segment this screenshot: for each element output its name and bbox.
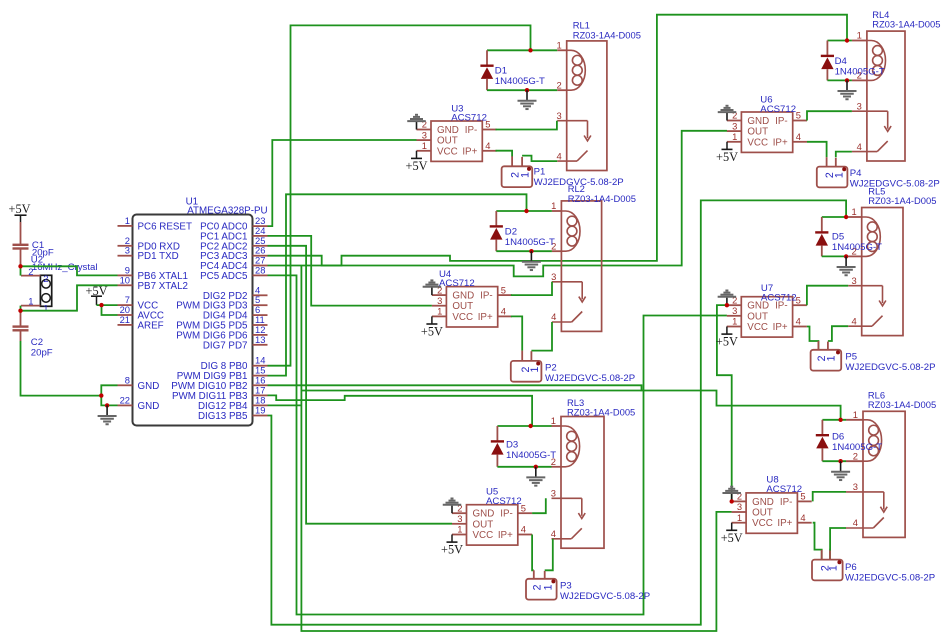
wire RL1 pin3 to U3 IP- [496,121,557,130]
wire PC4 to U6 OUT [268,131,728,277]
svg-text:DIG7 PD7: DIG7 PD7 [203,340,248,351]
svg-text:VCC: VCC [747,137,768,148]
wire RL1 coil net [487,49,557,51]
svg-text:4: 4 [796,316,801,327]
wire RL5 pin2 net [822,255,848,257]
label D3 [506,439,556,460]
wire RL6 pin4 to P6 pin1 [830,528,846,560]
svg-text:PD1 TXD: PD1 TXD [138,251,179,262]
svg-text:OUT: OUT [473,519,494,530]
svg-text:GND: GND [452,291,474,302]
svg-text:RZ03-1A4-D005: RZ03-1A4-D005 [573,29,641,40]
svg-text:3: 3 [457,513,462,524]
power +5V (U6) [716,142,738,164]
svg-text:4: 4 [556,150,561,161]
ground (U5) [443,499,462,514]
sensor U4 ACS712 [432,284,512,327]
wire U4 IP+ to P2 pin2 [511,316,522,350]
node VCC junction [99,303,103,307]
node RL4 pin1 junction [845,38,849,42]
wire RL3 pin2 net [497,466,551,468]
svg-text:3: 3 [551,488,556,499]
svg-text:3: 3 [556,110,561,121]
connector P4 WJ2EDGVC-5.08-2P [817,157,848,187]
wire RL3 pin3 to U5 IP- [532,498,546,513]
label U3 [451,104,487,124]
svg-text:4: 4 [857,141,862,152]
svg-text:3: 3 [437,295,442,306]
svg-text:IP-: IP- [465,125,478,136]
svg-text:WJ2EDGVC-5.08-2P: WJ2EDGVC-5.08-2P [560,591,650,602]
svg-text:GND: GND [747,116,769,127]
wire U8 IP+ to P6 pin2 [813,523,822,560]
svg-text:22: 22 [120,394,130,405]
svg-text:1: 1 [737,512,742,523]
svg-text:P4: P4 [850,168,862,179]
mcu U1 ATMEGA328P-PU [118,197,268,426]
crystal U2 16MHz_Crystal [21,254,97,313]
svg-text:4: 4 [485,140,490,151]
svg-text:1: 1 [125,215,130,226]
wire DIG9 to RL2 coil drive [268,194,527,375]
svg-text:4: 4 [501,306,506,317]
svg-text:1: 1 [551,200,556,211]
svg-text:3: 3 [551,271,556,282]
relay RL2 RZ03-1A4-D005 [551,200,601,331]
diode D3 1N4005G-T [491,426,504,467]
wire U6 IP- to RL4 pin3 [807,111,852,120]
power +5V (U5) [441,535,463,557]
svg-text:AREF: AREF [138,320,164,331]
relay RL1 RZ03-1A4-D005 [556,40,606,171]
wire RL2 pin4 to P2 pin1 [531,322,552,351]
svg-text:+5V: +5V [716,335,738,349]
node RL1 pin1 junction [528,48,532,52]
svg-text:IP+: IP+ [773,322,788,333]
svg-text:1: 1 [851,206,856,217]
wire RL1 pin4 to P1 pin1 [522,156,557,162]
ground (RL5) [837,256,856,275]
diode D6 1N4005G-T [816,420,829,461]
node U7 gnd junction [725,303,729,307]
svg-text:OUT: OUT [747,127,768,138]
wire C2 to GND pins [21,341,118,396]
svg-text:1N4005G-T: 1N4005G-T [506,450,556,461]
svg-text:WJ2EDGVC-5.08-2P: WJ2EDGVC-5.08-2P [845,362,935,373]
svg-text:IP+: IP+ [773,137,788,148]
diode D5 1N4005G-T [815,217,828,256]
wire VCC/AVCC net [97,304,118,306]
svg-text:5: 5 [501,284,506,295]
wire PC3 to RL4 coil drive [268,15,848,266]
wire RL1 pin2 net [487,89,557,91]
wire RL6 pin2 net [822,460,846,462]
ground (U1) [98,405,117,424]
svg-text:20pF: 20pF [31,347,53,358]
svg-text:D3: D3 [506,439,518,450]
svg-text:WJ2EDGVC-5.08-2P: WJ2EDGVC-5.08-2P [845,573,935,584]
label D4 [835,56,885,77]
svg-text:WJ2EDGVC-5.08-2P: WJ2EDGVC-5.08-2P [545,373,635,384]
capacitor C1 20pF [13,222,54,266]
wire RL4 coil net [827,40,852,42]
power +5V (top left) [9,202,31,222]
svg-text:ACS712: ACS712 [451,112,487,123]
node RL2 gnd junction [529,249,533,253]
svg-text:1: 1 [857,30,862,41]
label D5 [832,232,882,253]
connector P6 WJ2EDGVC-5.08-2P [812,550,843,580]
node U8 gnd junction [730,499,734,503]
power +5V (U1 VCC) [86,284,108,305]
node RL6 gnd junction [838,459,842,463]
label U4 [439,269,475,289]
ground (RL1) [518,90,537,109]
svg-text:VCC: VCC [747,322,768,333]
power +5V (U7) [716,327,738,349]
connector P2 WJ2EDGVC-5.08-2P [511,351,542,382]
node RL6 pin1 junction [838,418,842,422]
label P2 [545,362,635,383]
wire RL2 pin2 net [496,250,552,252]
svg-text:P5: P5 [845,352,857,363]
svg-text:RZ03-1A4-D005: RZ03-1A4-D005 [567,407,635,418]
svg-text:4: 4 [851,315,856,326]
power +5V (U3) [406,151,428,173]
ground (RL4) [838,80,857,99]
svg-text:1N4005G-T: 1N4005G-T [835,66,885,77]
wire ADC0 to U3 OUT [268,140,417,226]
sensor U3 ACS712 [417,119,497,162]
svg-text:VCC: VCC [452,312,473,323]
relay RL3 RZ03-1A4-D005 [551,415,604,548]
svg-text:GND: GND [437,125,459,136]
ground (RL3) [526,467,545,486]
svg-text:GND: GND [752,497,774,508]
diode D1 1N4005G-T [480,50,493,90]
ground (U7) [718,291,737,306]
label U6 [760,95,796,115]
svg-text:VCC: VCC [437,146,458,157]
wire RL2 pin3 to U4 IP- [511,282,552,295]
svg-text:+5V: +5V [441,543,463,557]
svg-text:1N4005G-T: 1N4005G-T [495,76,545,87]
wire PC4/U8 OUT riser [301,266,731,632]
svg-text:4: 4 [521,524,526,535]
svg-text:4: 4 [800,512,805,523]
wire RL3 pin4 to P3 pin1 [545,539,553,571]
relay RL6 RZ03-1A4-D005 [846,409,905,537]
svg-text:2: 2 [43,273,48,284]
svg-text:+5V: +5V [721,531,743,545]
label D1 [495,66,545,87]
svg-text:4: 4 [853,517,858,528]
svg-text:VCC: VCC [473,530,494,541]
svg-text:1: 1 [833,172,845,178]
svg-text:RZ03-1A4-D005: RZ03-1A4-D005 [872,18,940,29]
svg-text:GND: GND [138,381,160,392]
svg-text:21: 21 [120,314,130,325]
svg-text:+5V: +5V [421,325,443,339]
wire PC5 to U7 OUT [268,275,727,614]
svg-text:1: 1 [556,40,561,51]
svg-text:ACS712: ACS712 [761,293,797,304]
sensor U5 ACS712 [452,502,532,545]
svg-text:D1: D1 [495,66,507,77]
svg-text:1: 1 [529,366,541,372]
svg-text:4: 4 [551,311,556,322]
svg-text:P6: P6 [845,562,857,573]
svg-text:1: 1 [828,565,840,571]
sensor U8 ACS712 [732,491,812,534]
svg-text:8: 8 [125,374,130,385]
node RL3 gnd junction [534,465,538,469]
relay RL4 RZ03-1A4-D005 [852,30,905,161]
ground (RL2) [522,251,541,270]
ground (U3) [407,115,426,130]
label P3 [560,580,650,601]
svg-text:1N4005G-T: 1N4005G-T [505,237,555,248]
label RL6 [868,389,936,410]
svg-text:P1: P1 [534,166,546,177]
wire DIG8 to RL1 coil drive [268,25,531,365]
wire U6 IP+ to P4 pin2 [807,142,827,157]
wire U8 IP- to RL6 pin3 [813,492,846,502]
svg-text:3: 3 [853,481,858,492]
svg-text:1: 1 [437,306,442,317]
svg-text:GND: GND [473,509,495,520]
node GND junction B [105,403,109,407]
svg-text:1N4005G-T: 1N4005G-T [832,442,882,453]
svg-text:3: 3 [422,129,427,140]
wire U7 IP+ to P5 pin2 [807,327,819,350]
sensor U6 ACS712 [727,110,807,153]
ground (U8) [722,487,741,502]
svg-text:PB7 XTAL2: PB7 XTAL2 [138,281,188,292]
node RL2 pin1 junction [524,209,528,213]
power +5V (U4) [421,316,443,338]
node RL5 pin1 junction [844,215,848,219]
wire DIG10 to RL6 coil drive [301,390,641,392]
svg-text:1N4005G-T: 1N4005G-T [832,242,882,253]
node crystal bottom junction [18,309,22,313]
wire RL4 pin4 to P4 pin1 [836,152,852,158]
wire XTAL1 net [21,266,118,275]
wire U3 IP+ to P1 pin2 [496,151,513,157]
svg-text:OUT: OUT [747,311,768,322]
svg-text:ACS712: ACS712 [766,484,802,495]
svg-text:P3: P3 [560,580,572,591]
svg-text:3: 3 [851,275,856,286]
svg-text:IP+: IP+ [462,146,477,157]
wire ADC2 to U5 OUT [268,246,453,524]
wire U7 IP- to RL5 pin3 [807,286,848,306]
svg-text:D5: D5 [832,232,844,243]
label RL5 [868,186,936,207]
label U7 [761,283,797,304]
svg-text:10: 10 [120,274,130,285]
diode D4 1N4005G-T [821,41,834,81]
svg-text:OUT: OUT [752,508,773,519]
wire crystal pin1 drop [20,306,22,311]
svg-text:DIG13 PB5: DIG13 PB5 [198,411,248,422]
svg-text:1: 1 [732,131,737,142]
svg-text:OUT: OUT [437,136,458,147]
svg-text:1: 1 [43,303,48,314]
svg-text:+5V: +5V [9,202,31,216]
wire RL5 pin4 to P5 pin1 [828,326,848,341]
wire U5 IP+ to P3 pin2 [532,535,534,571]
svg-text:3: 3 [732,305,737,316]
svg-text:1: 1 [457,524,462,535]
connector P5 WJ2EDGVC-5.08-2P [811,341,842,371]
label P6 [845,562,935,583]
label RL2 [568,183,636,204]
svg-text:1: 1 [826,355,838,361]
svg-text:4: 4 [796,131,801,142]
wire DIG12 stub net [268,404,302,406]
svg-text:28: 28 [255,264,265,275]
label P4 [850,168,940,189]
node crystal top junction [18,264,22,268]
label P5 [845,352,935,373]
svg-text:16MHz_Crystal: 16MHz_Crystal [32,262,98,273]
diode D2 1N4005G-T [490,211,503,251]
svg-text:1: 1 [422,140,427,151]
svg-text:13: 13 [255,334,265,345]
svg-text:1: 1 [542,584,554,590]
svg-text:D4: D4 [835,56,848,67]
label RL1 [573,20,641,41]
svg-text:D6: D6 [832,431,844,442]
wire RL5 coil net [822,216,848,218]
wire crystal pin2 drop [20,266,22,275]
sensor U7 ACS712 [727,294,807,337]
svg-text:WJ2EDGVC-5.08-2P: WJ2EDGVC-5.08-2P [850,179,940,190]
svg-text:RZ03-1A4-D005: RZ03-1A4-D005 [868,195,936,206]
label U5 [486,486,522,507]
label P1 [534,166,624,187]
svg-text:5: 5 [796,110,801,121]
svg-text:VCC: VCC [752,518,773,529]
svg-text:3: 3 [737,501,742,512]
svg-text:3: 3 [125,245,130,256]
label D6 [832,431,882,452]
wire RL2 coil net [496,210,552,212]
svg-text:RZ03-1A4-D005: RZ03-1A4-D005 [568,193,636,204]
svg-text:IP+: IP+ [777,518,792,529]
wire RL6 coil net [822,419,846,421]
svg-text:1: 1 [28,296,33,307]
relay RL5 RZ03-1A4-D005 [848,206,903,335]
wire RL3 coil net [497,425,551,427]
svg-text:IP+: IP+ [498,530,513,541]
svg-text:IP-: IP- [780,497,793,508]
wire ADC1 to U4 OUT [268,236,432,306]
svg-text:IP-: IP- [480,291,493,302]
svg-text:IP+: IP+ [478,312,493,323]
ground (RL6) [831,461,850,480]
wire XTAL2 net [21,285,118,310]
connector P3 WJ2EDGVC-5.08-2P [526,570,557,599]
label RL4 [872,9,940,30]
svg-text:1: 1 [853,409,858,420]
svg-text:D2: D2 [505,227,517,238]
svg-text:PC6 RESET: PC6 RESET [138,221,192,232]
svg-text:1: 1 [520,172,532,178]
label D2 [505,227,555,248]
ground (U6) [718,106,737,121]
svg-text:3: 3 [857,100,862,111]
wire DIG13 to RL5 coil drive [268,200,847,624]
svg-text:ACS712: ACS712 [439,278,475,289]
svg-text:+5V: +5V [716,150,738,164]
svg-text:P2: P2 [545,362,557,373]
node GND junction A [99,393,103,397]
wire U7 GND to U8 GND link [717,305,732,501]
ground (U4) [423,280,442,295]
wire RL4 pin2 net [827,79,852,81]
svg-text:2: 2 [556,79,561,90]
label U8 [766,474,802,495]
svg-text:GND: GND [138,401,160,412]
svg-text:4: 4 [551,528,556,539]
svg-text:PC5 ADC5: PC5 ADC5 [200,271,248,282]
node RL1 gnd junction [525,88,529,92]
wire DIG11 to RL3 coil drive [268,395,533,426]
power +5V (U8) [721,523,743,545]
node RL3 pin1 junction [528,424,532,428]
svg-text:19: 19 [255,405,265,416]
svg-text:ACS712: ACS712 [486,496,522,507]
svg-text:IP-: IP- [500,509,513,520]
capacitor C2 20pF [13,311,53,359]
node RL5 gnd junction [844,254,848,258]
svg-text:1: 1 [551,415,556,426]
connector P1 WJ2EDGVC-5.08-2P [502,156,533,187]
svg-text:1: 1 [732,316,737,327]
label RL3 [567,397,635,418]
svg-text:+5V: +5V [406,159,428,173]
svg-text:IP-: IP- [775,116,788,127]
svg-text:OUT: OUT [452,301,473,312]
node RL4 gnd junction [845,78,849,82]
svg-text:3: 3 [732,120,737,131]
svg-text:RZ03-1A4-D005: RZ03-1A4-D005 [868,399,936,410]
svg-text:ACS712: ACS712 [760,104,796,115]
